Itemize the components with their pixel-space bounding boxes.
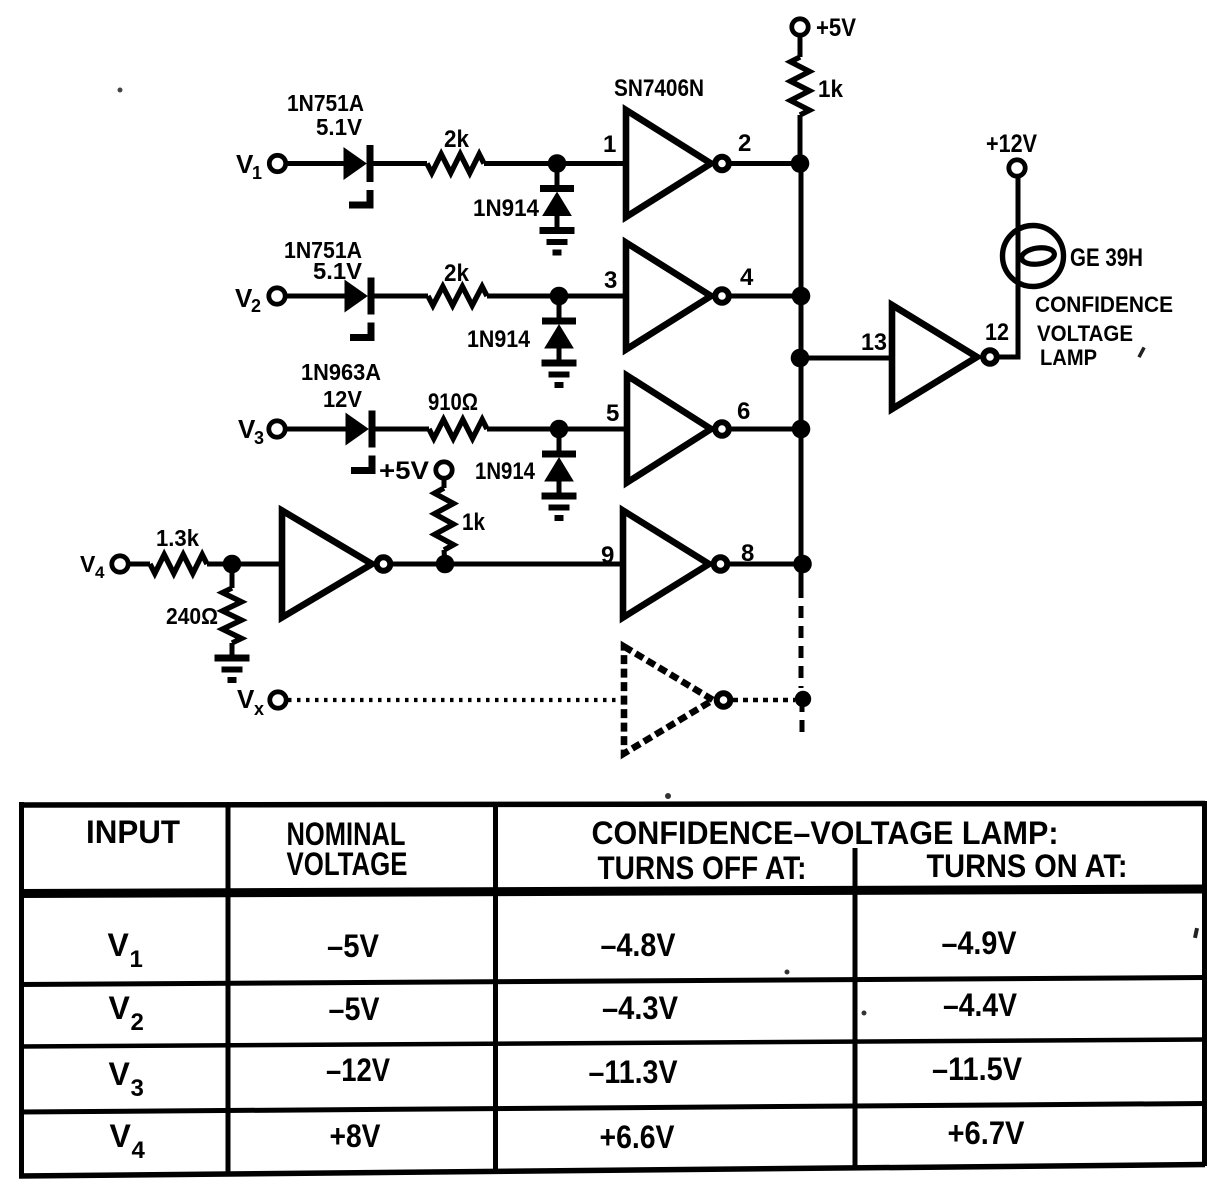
svg-text:CONFIDENCE–VOLTAGE LAMP:: CONFIDENCE–VOLTAGE LAMP: — [592, 815, 1059, 851]
label V3 — [238, 414, 264, 448]
wire V3 to zener — [285, 427, 346, 432]
svg-text:240Ω: 240Ω — [166, 603, 218, 629]
input terminal V2 — [269, 288, 285, 304]
svg-text:V: V — [109, 1056, 131, 1092]
inverter U1D first — [282, 511, 390, 618]
inverter U1A — [626, 110, 729, 217]
svg-text:–4.8V: –4.8V — [601, 927, 677, 963]
label 1N963A — [301, 359, 381, 385]
power terminal +5V (mid) — [379, 457, 452, 485]
svg-text:–5V: –5V — [329, 991, 381, 1027]
resistor 1.3k — [150, 525, 207, 574]
svg-text:910Ω: 910Ω — [428, 389, 478, 416]
node bus-vx — [795, 691, 811, 707]
svg-text:4: 4 — [740, 264, 754, 291]
svg-text:GE 39H: GE 39H — [1070, 244, 1143, 272]
inverter U1F dashed — [624, 647, 730, 754]
node E (1k pull-up) — [436, 555, 455, 574]
diode 1N914 (V1) with ground — [540, 164, 575, 253]
wire resistor to inverter pin 5 — [487, 427, 627, 432]
svg-text:1: 1 — [130, 946, 143, 973]
table header rule — [19, 889, 1205, 894]
zener diode CR2 1N751A — [345, 278, 375, 338]
svg-text:–12V: –12V — [326, 1052, 391, 1088]
wire bus to pin 13 — [800, 356, 892, 361]
wire Vx dotted — [288, 698, 624, 702]
wire V4 to resistor — [127, 562, 150, 567]
inverter U1E — [623, 511, 727, 618]
header INPUT — [86, 814, 180, 850]
table outer border — [19, 801, 1205, 1178]
svg-text:2k: 2k — [444, 260, 470, 287]
svg-text:V: V — [237, 684, 255, 714]
wire Vx out dotted — [733, 698, 795, 703]
resistor 2k (V2) — [428, 260, 487, 306]
svg-text:1: 1 — [603, 131, 616, 158]
inverter U1C — [627, 376, 729, 483]
label V4 — [80, 551, 105, 582]
svg-text:1N963A: 1N963A — [301, 359, 381, 385]
svg-text:+6.7V: +6.7V — [948, 1115, 1026, 1151]
power terminal +5V — [792, 14, 856, 42]
svg-text:2: 2 — [738, 130, 751, 157]
svg-text:–5V: –5V — [327, 928, 380, 964]
resistor 910ohm — [428, 389, 487, 439]
header TURNS ON AT — [927, 848, 1128, 884]
svg-text:+12V: +12V — [986, 130, 1037, 158]
pin 1 — [603, 131, 616, 158]
node bus-4 — [792, 287, 811, 306]
input terminal V1 — [269, 155, 285, 171]
svg-text:3: 3 — [604, 267, 617, 294]
node B (V2 clamp) — [550, 287, 569, 306]
svg-text:1: 1 — [252, 163, 262, 183]
svg-text:V: V — [110, 1118, 132, 1154]
wire pin8 to bus — [729, 562, 802, 567]
zener diode CR3 1N963A — [346, 411, 376, 471]
svg-text:2: 2 — [251, 296, 261, 316]
power terminal +12V — [986, 130, 1037, 176]
resistor 1k pull-up — [791, 34, 844, 163]
svg-text:1N914: 1N914 — [473, 195, 540, 222]
svg-text:+5V: +5V — [816, 14, 856, 42]
svg-text:1N751A: 1N751A — [287, 90, 364, 116]
svg-text:12V: 12V — [323, 386, 363, 412]
input terminal V4 — [112, 556, 128, 572]
label SN7406N — [614, 75, 704, 102]
svg-text:–4.3V: –4.3V — [602, 990, 679, 1026]
svg-text:6: 6 — [737, 398, 750, 425]
svg-text:1N914: 1N914 — [467, 326, 531, 353]
resistor 1k (mid) — [435, 477, 486, 564]
pin 6 — [737, 398, 750, 425]
wire pin2 to bus — [730, 161, 801, 166]
svg-text:V: V — [80, 551, 96, 577]
table row dividers — [19, 978, 1205, 1113]
svg-text:5: 5 — [606, 400, 619, 427]
svg-text:V: V — [109, 990, 131, 1026]
svg-text:5.1V: 5.1V — [313, 258, 363, 284]
header TURNS OFF AT — [598, 850, 807, 886]
svg-text:–4.4V: –4.4V — [943, 987, 1018, 1023]
input terminal V3 — [269, 421, 285, 437]
label 5.1V (V1) — [316, 114, 363, 140]
node bus-13 — [791, 349, 810, 368]
svg-text:V: V — [108, 927, 130, 963]
label 12V — [323, 386, 363, 412]
wire inv to pin 9 — [391, 562, 623, 567]
lamp GE 39H — [1003, 226, 1064, 287]
svg-text:VOLTAGE: VOLTAGE — [287, 846, 408, 882]
label LAMP — [1040, 345, 1097, 370]
svg-text:+5V: +5V — [379, 457, 429, 485]
header NOMINAL VOLTAGE — [287, 816, 408, 882]
svg-text:TURNS OFF AT:: TURNS OFF AT: — [598, 850, 807, 886]
svg-text:4: 4 — [95, 563, 105, 582]
svg-text:3: 3 — [131, 1075, 144, 1102]
node A (V1 clamp) — [548, 154, 567, 173]
pin 12 — [985, 319, 1009, 346]
svg-text:12: 12 — [985, 319, 1009, 346]
wire output bus dashed — [801, 586, 802, 737]
node bus-2 — [791, 154, 810, 173]
node bus-6 — [792, 420, 811, 439]
node C (V3 clamp) — [550, 420, 569, 439]
svg-text:CONFIDENCE: CONFIDENCE — [1035, 292, 1173, 317]
svg-text:4: 4 — [132, 1137, 146, 1164]
row V3 — [109, 1051, 1023, 1102]
svg-text:–11.5V: –11.5V — [932, 1051, 1023, 1087]
wire resistor to inverter pin 1 — [484, 161, 626, 166]
row V4 — [110, 1115, 1026, 1164]
svg-text:1k: 1k — [818, 76, 844, 103]
resistor 2k (V1) — [427, 126, 484, 173]
node D (V4 divider) — [223, 555, 242, 574]
pin 3 — [604, 267, 617, 294]
ground (240ohm) — [215, 658, 250, 680]
wire resistor to inverter pin 3 — [487, 294, 626, 299]
svg-text:2: 2 — [131, 1009, 144, 1036]
svg-text:1k: 1k — [462, 509, 486, 536]
resistor 240ohm — [166, 564, 242, 655]
wire V2 to zener — [285, 294, 345, 299]
wire pin12 to lamp — [998, 178, 1018, 357]
wire zener to resistor — [375, 427, 429, 432]
wire pin6 to bus — [730, 427, 801, 432]
svg-text:SN7406N: SN7406N — [614, 75, 704, 102]
table column dividers — [228, 804, 855, 1172]
wire output bus — [799, 163, 804, 586]
svg-text:13: 13 — [861, 329, 887, 356]
inverter U1B — [626, 243, 729, 350]
scan specks — [118, 88, 1199, 1016]
wire resistor to inverter — [207, 562, 282, 567]
pin 13 — [861, 329, 887, 356]
label Vx — [237, 684, 264, 719]
input terminal Vx — [270, 692, 286, 708]
svg-text:1N914: 1N914 — [475, 458, 536, 485]
pin 8 — [741, 540, 754, 567]
label 1N751A (V2) — [284, 237, 362, 263]
wire pin4 to bus — [730, 294, 801, 299]
label VOLTAGE — [1037, 321, 1133, 346]
wire V1 to zener — [286, 161, 344, 166]
label GE 39H — [1070, 244, 1143, 272]
zener diode CR1 1N751A — [344, 145, 374, 205]
label V2 — [235, 283, 261, 316]
row V1 — [108, 925, 1018, 973]
wire zener to resistor — [374, 294, 428, 299]
diode 1N914 (V3) with ground — [542, 429, 577, 518]
pin 9 — [601, 542, 614, 569]
svg-text:–11.3V: –11.3V — [589, 1054, 679, 1090]
header CONFIDENCE-VOLTAGE LAMP — [592, 815, 1059, 851]
row V2 — [109, 987, 1018, 1036]
svg-text:5.1V: 5.1V — [316, 114, 363, 140]
diode 1N914 (V2) with ground — [542, 296, 577, 385]
svg-text:TURNS ON AT:: TURNS ON AT: — [927, 848, 1128, 884]
wire zener to resistor — [373, 161, 427, 166]
svg-text:x: x — [254, 699, 264, 719]
pin 5 — [606, 400, 619, 427]
svg-text:1.3k: 1.3k — [156, 525, 199, 551]
svg-text:INPUT: INPUT — [86, 814, 180, 850]
inverter U1G lamp driver — [892, 305, 997, 409]
label 1N914 (V2) — [467, 326, 531, 353]
label 1N914 (V1) — [473, 195, 540, 222]
label 1N914 (V3) — [475, 458, 536, 485]
svg-text:3: 3 — [254, 428, 264, 448]
label 1N751A (V1) — [287, 90, 364, 116]
svg-text:+8V: +8V — [330, 1118, 382, 1154]
pin 2 — [738, 130, 751, 157]
svg-text:LAMP: LAMP — [1040, 345, 1097, 370]
svg-text:–4.9V: –4.9V — [942, 925, 1018, 961]
label CONFIDENCE — [1035, 292, 1173, 317]
pin 4 — [740, 264, 754, 291]
svg-text:+6.6V: +6.6V — [600, 1119, 676, 1155]
node bus-8 — [793, 555, 812, 574]
svg-text:9: 9 — [601, 542, 614, 569]
svg-text:VOLTAGE: VOLTAGE — [1037, 321, 1133, 346]
label V1 — [236, 149, 262, 183]
label 5.1V (V2) — [313, 258, 363, 284]
svg-text:2k: 2k — [444, 126, 470, 153]
